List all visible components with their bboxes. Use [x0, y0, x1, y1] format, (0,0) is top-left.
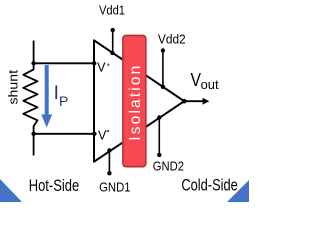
svg-text:GND2: GND2	[153, 158, 184, 173]
svg-text:P: P	[59, 93, 68, 109]
svg-text:Isolation: Isolation	[127, 66, 144, 141]
svg-text:Vdd1: Vdd1	[99, 4, 125, 18]
svg-text:GND1: GND1	[99, 179, 131, 194]
svg-text:V: V	[191, 70, 202, 90]
svg-text:shunt: shunt	[6, 70, 21, 105]
svg-text:Hot-Side: Hot-Side	[29, 176, 79, 195]
svg-text:V: V	[98, 129, 107, 143]
svg-text:V: V	[97, 61, 106, 75]
svg-text:Cold-Side: Cold-Side	[181, 176, 237, 195]
svg-text:Vdd2: Vdd2	[158, 31, 186, 46]
svg-text:out: out	[201, 77, 219, 92]
